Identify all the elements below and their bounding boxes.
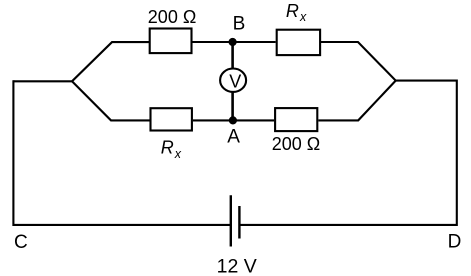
svg-text:B: B (233, 13, 246, 34)
svg-text:V: V (229, 72, 241, 92)
svg-text:R: R (161, 138, 174, 158)
svg-text:200 Ω: 200 Ω (148, 7, 197, 27)
svg-text:D: D (448, 232, 462, 253)
svg-text:x: x (174, 147, 182, 161)
svg-text:x: x (299, 10, 307, 24)
svg-text:12 V: 12 V (217, 255, 257, 276)
svg-text:C: C (14, 232, 28, 253)
svg-text:R: R (286, 1, 299, 21)
svg-text:A: A (227, 126, 240, 147)
svg-text:200 Ω: 200 Ω (272, 134, 321, 154)
